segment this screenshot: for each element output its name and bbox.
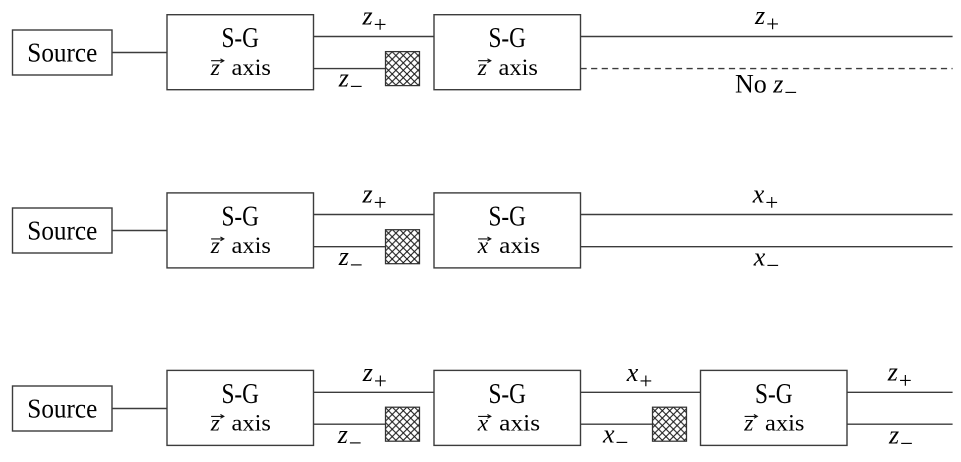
svg-text:z+: z+ xyxy=(362,180,387,216)
svg-text:S-G: S-G xyxy=(488,201,526,232)
svg-text:S-G: S-G xyxy=(488,379,526,410)
svg-text:z: z xyxy=(210,411,220,437)
S-G analyzer box U1 row 1 (z axis) xyxy=(167,15,314,90)
svg-text:z: z xyxy=(210,233,220,259)
svg-text:z−: z− xyxy=(888,421,913,457)
svg-text:No z−: No z− xyxy=(735,69,797,105)
svg-text:S-G: S-G xyxy=(221,23,259,54)
wire source to first analyzer, row 3 xyxy=(112,408,167,410)
source box row 2 xyxy=(13,208,113,253)
beam blocker row 2 (crosshatched absorber) xyxy=(386,230,420,264)
svg-text:z+: z+ xyxy=(362,1,387,37)
wire absent z- output (dashed), row 1 xyxy=(581,68,953,70)
beam blocker row 3 second (crosshatched absorber) xyxy=(653,407,687,441)
svg-text:z+: z+ xyxy=(887,358,912,394)
wire source to first analyzer, row 1 xyxy=(112,52,167,54)
S-G analyzer box U2 row 2 (x axis) (x axis) xyxy=(434,193,581,268)
svg-text:x+: x+ xyxy=(752,180,779,216)
svg-text:axis: axis xyxy=(232,233,271,258)
svg-text:z: z xyxy=(477,55,487,81)
beam blocker row 1 (crosshatched absorber) xyxy=(386,52,420,86)
wire z- beam into blocker, row 2 xyxy=(314,246,386,248)
wire x+ beam between analyzers, row 3 xyxy=(581,391,701,393)
wire z- beam into blocker, row 1 xyxy=(314,68,386,70)
svg-text:z: z xyxy=(210,55,220,81)
wire source to first analyzer, row 2 xyxy=(112,230,167,232)
svg-text:S-G: S-G xyxy=(488,23,526,54)
svg-text:x: x xyxy=(477,233,489,259)
wire z- beam into blocker, row 3 xyxy=(314,423,386,425)
wire z- output beam, row 3 xyxy=(847,423,953,425)
svg-text:z+: z+ xyxy=(362,358,387,394)
source box row 1 xyxy=(13,30,113,75)
svg-text:S-G: S-G xyxy=(221,379,259,410)
svg-text:axis: axis xyxy=(499,411,540,436)
svg-text:Source: Source xyxy=(27,392,97,423)
svg-text:x: x xyxy=(477,411,489,437)
svg-text:axis: axis xyxy=(232,55,271,80)
S-G analyzer box U1 row 2 (z axis) xyxy=(167,193,314,268)
svg-text:z: z xyxy=(743,411,753,437)
wire z+ output beam, row 1 xyxy=(581,36,953,38)
S-G analyzer box U1 row 3 (z axis) xyxy=(167,370,314,445)
wire x- beam into blocker, row 3 xyxy=(581,423,653,425)
S-G analyzer box U3 row 3 (z axis) xyxy=(701,370,848,445)
beam blocker row 3 first (crosshatched absorber) xyxy=(386,407,420,441)
wire z+ beam between analyzers, row 3 xyxy=(314,391,435,393)
svg-text:S-G: S-G xyxy=(755,379,793,410)
svg-text:axis: axis xyxy=(765,411,804,436)
svg-text:Source: Source xyxy=(27,214,97,245)
svg-text:S-G: S-G xyxy=(221,201,259,232)
wire x+ output beam, row 2 xyxy=(581,214,953,216)
svg-text:axis: axis xyxy=(499,55,538,80)
wire z+ beam between analyzers, row 2 xyxy=(314,214,435,216)
svg-text:x−: x− xyxy=(753,243,780,279)
wire z+ beam between analyzers, row 1 xyxy=(314,36,435,38)
svg-text:z+: z+ xyxy=(754,1,779,37)
svg-text:x+: x+ xyxy=(626,358,653,394)
svg-text:axis: axis xyxy=(232,411,271,436)
wire x- output beam, row 2 xyxy=(581,246,953,248)
S-G analyzer box U2 row 3 (x axis) (x axis) xyxy=(434,370,581,445)
svg-text:z−: z− xyxy=(337,420,362,456)
wire z+ output beam, row 3 xyxy=(847,391,953,393)
svg-text:x−: x− xyxy=(602,420,629,456)
source box row 3 xyxy=(13,386,113,431)
svg-text:axis: axis xyxy=(499,233,540,258)
svg-text:Source: Source xyxy=(27,36,97,67)
S-G analyzer box U2 row 1 (z axis) xyxy=(434,15,581,90)
